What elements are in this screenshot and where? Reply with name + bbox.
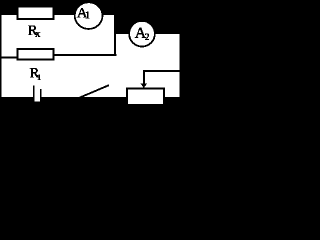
battery short electrode bbox=[40, 89, 42, 99]
wire rheostat horizontal bbox=[143, 70, 181, 72]
wire bottom segment 3 bbox=[107, 97, 126, 99]
circuit interior region upper-left bbox=[2, 15, 114, 59]
switch lever bbox=[80, 85, 109, 97]
svg-text:x: x bbox=[35, 28, 41, 40]
wire A2 branch bbox=[114, 32, 181, 34]
wire rheostat arrow stem bbox=[143, 70, 145, 84]
battery long electrode bbox=[33, 85, 35, 99]
wire bottom segment 1 bbox=[0, 97, 35, 99]
rheostat arrowhead bbox=[140, 83, 147, 88]
circuit interior region lower band bbox=[2, 56, 180, 97]
svg-text:1: 1 bbox=[85, 10, 90, 21]
rheostat box bbox=[127, 88, 164, 105]
wire right bbox=[179, 32, 181, 99]
circuit interior region right band bbox=[116, 34, 179, 97]
wire bottom segment 2 bbox=[40, 97, 80, 99]
battery gap white notch bbox=[35, 97, 40, 102]
ammeter A1 bbox=[75, 2, 103, 29]
resistor Rx bbox=[17, 7, 53, 19]
svg-text:1: 1 bbox=[37, 72, 41, 82]
ammeter A2 bbox=[129, 21, 155, 47]
wire top bbox=[0, 13, 117, 15]
wire left bbox=[0, 13, 2, 99]
resistor R1 bbox=[17, 49, 53, 59]
background (transparent area shown black) bbox=[0, 0, 182, 128]
wire vertical A1-to-middle bbox=[114, 13, 116, 56]
svg-text:2: 2 bbox=[145, 33, 150, 43]
wire middle-left to R1 bbox=[2, 56, 17, 58]
wire bottom segment 4 bbox=[165, 97, 182, 99]
wire middle-right from R1 bbox=[54, 54, 117, 56]
